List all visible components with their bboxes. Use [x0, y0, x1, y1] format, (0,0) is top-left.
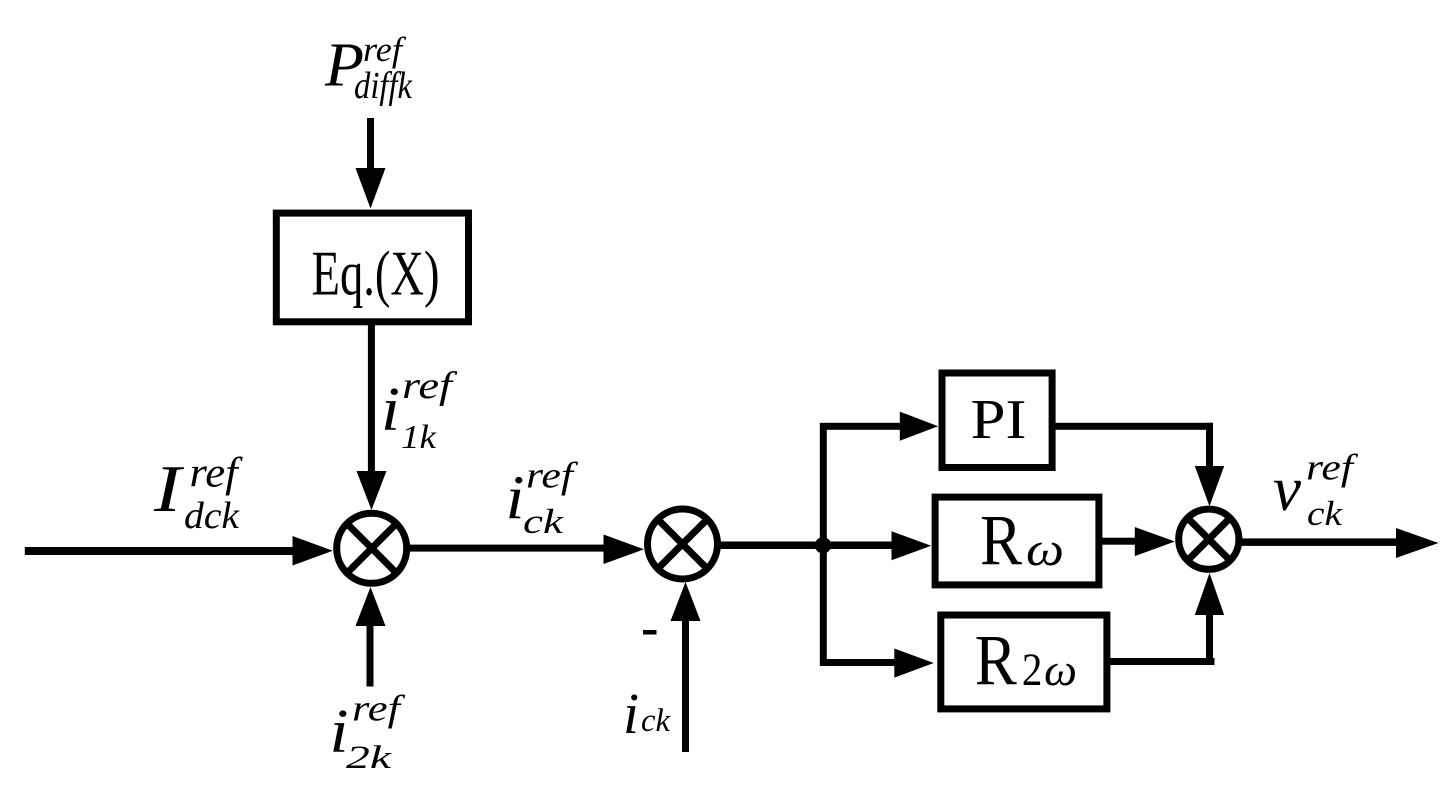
- wire from Eq.(X) to summing junction S1: [368, 325, 375, 475]
- svg-text:2: 2: [1022, 644, 1043, 696]
- svg-text:ref: ref: [363, 30, 406, 69]
- wire arrowhead into left of S2: [604, 535, 645, 565]
- block R2omega: [941, 615, 1107, 709]
- node Idck_ref label: [153, 451, 243, 538]
- wire arrowhead into R2omega: [894, 649, 934, 678]
- svg-text:i: i: [623, 681, 639, 746]
- wire R_omega output to S3: [1099, 538, 1137, 545]
- wire arrow into Eq.(X): [356, 118, 386, 209]
- svg-text:diffk: diffk: [354, 65, 413, 107]
- wire branch to R2omega: [820, 659, 896, 666]
- node i2k_ref label: [330, 689, 406, 777]
- svg-text:i: i: [381, 376, 400, 444]
- svg-text:ck: ck: [641, 703, 671, 739]
- wire output arrowhead: [1396, 528, 1439, 558]
- wire S2 to branch node: [718, 542, 895, 550]
- svg-text:2k: 2k: [346, 740, 393, 776]
- svg-text:i: i: [506, 465, 525, 533]
- svg-text:ck: ck: [1307, 494, 1344, 533]
- svg-text:dck: dck: [184, 495, 240, 537]
- node ick_ref label: [506, 456, 579, 542]
- svg-text:v: v: [1273, 454, 1301, 524]
- svg-text:Eq.(X): Eq.(X): [312, 239, 440, 309]
- block PI: [942, 373, 1052, 468]
- block Eq.(X): [276, 213, 468, 322]
- svg-text:1k: 1k: [401, 419, 437, 456]
- svg-text:I: I: [153, 452, 184, 526]
- wire branch vertical: [820, 423, 827, 666]
- wire R2omega output to S3: [1104, 613, 1215, 665]
- wire arrowhead into R_omega: [892, 531, 932, 560]
- svg-text:PI: PI: [971, 389, 1027, 451]
- wire arrowhead into top of S1: [357, 471, 387, 510]
- summing junction S3: [1179, 509, 1239, 569]
- wire output from S3: [1239, 538, 1399, 546]
- wire arrow up into bottom of S2: [671, 582, 701, 752]
- svg-text:ck: ck: [523, 502, 565, 541]
- svg-text:R: R: [975, 620, 1017, 700]
- svg-text:ref: ref: [402, 365, 457, 407]
- branch node dot: [815, 537, 831, 553]
- svg-text:ω: ω: [1044, 645, 1077, 695]
- svg-text:ref: ref: [190, 451, 244, 497]
- wire S1 to S2: [407, 545, 606, 552]
- wire arrowhead down into top of S3: [1195, 466, 1224, 506]
- wire arrowhead into left of S3: [1135, 527, 1175, 556]
- summing junction S1: [337, 513, 407, 583]
- wire arrowhead into PI: [900, 412, 938, 441]
- svg-text:R: R: [980, 500, 1022, 580]
- wire arrowhead into left of S1: [293, 536, 333, 566]
- svg-text:ref: ref: [1306, 448, 1359, 489]
- node vck_ref label: [1273, 448, 1359, 534]
- summing junction S2: [648, 509, 718, 579]
- node ick label: [623, 681, 671, 746]
- svg-text:ref: ref: [352, 689, 406, 730]
- node i1k_ref label: [381, 365, 457, 456]
- node Pdiffk_ref label: [324, 30, 413, 107]
- wire arrow up into bottom of S1: [356, 587, 386, 687]
- minus sign at S2: [643, 630, 657, 635]
- svg-text:ref: ref: [526, 456, 579, 497]
- wire input from left: [25, 547, 295, 555]
- wire arrowhead up into bottom of S3: [1195, 573, 1224, 615]
- wire PI output to S3: [1053, 423, 1214, 467]
- svg-text:ω: ω: [1026, 523, 1064, 576]
- wire branch to PI: [820, 423, 902, 430]
- block R_omega: [935, 497, 1099, 585]
